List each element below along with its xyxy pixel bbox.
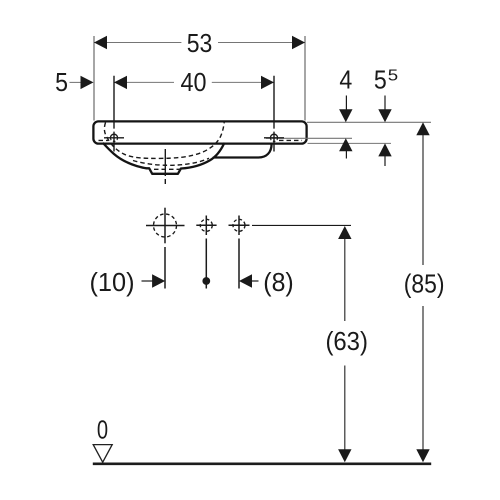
svg-text:(63): (63) — [325, 328, 368, 356]
svg-text:5: 5 — [55, 69, 68, 97]
svg-text:53: 53 — [187, 30, 213, 58]
svg-text:(8): (8) — [263, 269, 293, 297]
svg-text:40: 40 — [181, 69, 207, 97]
svg-text:4: 4 — [339, 66, 352, 94]
svg-text:0: 0 — [97, 416, 108, 444]
svg-text:5: 5 — [374, 66, 387, 94]
svg-text:5: 5 — [388, 67, 399, 84]
svg-text:(10): (10) — [90, 269, 135, 297]
svg-text:(85): (85) — [404, 270, 445, 298]
